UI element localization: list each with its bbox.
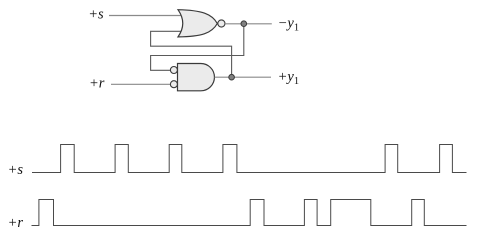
- wire feedback F1 from node -y1 to gate U2 upper input: [151, 24, 244, 70]
- junction node +y1: [229, 74, 235, 80]
- waveform +r: [32, 200, 467, 226]
- wire U2 output to +y1: [215, 76, 272, 78]
- waveform +s: [32, 145, 467, 173]
- svg-text:+s: +s: [88, 7, 104, 23]
- NOR gate U1 body: [178, 10, 217, 37]
- wire feedback F2 segment into U1 lower input: [151, 31, 232, 77]
- svg-text:+r: +r: [8, 215, 24, 231]
- wire U1 output to -y1: [225, 23, 272, 25]
- AND gate U2 body: [178, 64, 215, 91]
- AND gate U2 upper input bubble: [170, 67, 177, 74]
- svg-text:+s: +s: [8, 162, 24, 178]
- AND gate U2 lower input bubble: [170, 81, 177, 88]
- wire +r input to gate U2 lower bubble: [111, 83, 170, 85]
- NOR gate U1 output bubble: [218, 20, 225, 27]
- svg-text:+r: +r: [89, 75, 105, 91]
- junction node -y1: [241, 21, 247, 27]
- wire +s input to NOR gate U1: [109, 15, 183, 17]
